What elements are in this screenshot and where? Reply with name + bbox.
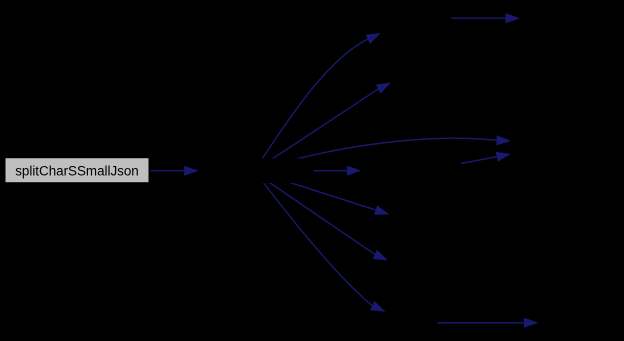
node splitCharSSmallJson (gray box) xyxy=(6,158,149,182)
edge from hub to second node xyxy=(254,83,391,172)
edge from hub to bottom node (curved) xyxy=(255,172,386,312)
edge from hub to top node (curved) xyxy=(254,33,381,171)
edge from top node to its callee (horizontal, top right) xyxy=(451,13,520,23)
hub node (black, invisible, clips fan edge origins) xyxy=(200,159,314,184)
edge from hub to middle node (short horizontal) xyxy=(300,166,361,176)
edge from splitCharSSmallJson to hub xyxy=(151,166,199,176)
edge from bottom node to its callee (horizontal, bottom right) xyxy=(437,318,539,328)
edge from hub to lower node 1 xyxy=(254,171,389,215)
svg-text:splitCharSSmallJson: splitCharSSmallJson xyxy=(15,164,139,179)
edge from middle node to far right node xyxy=(461,152,511,164)
edge from hub to far right node (long curve) xyxy=(256,135,511,170)
edge from hub to lower node 2 (curved) xyxy=(254,172,388,261)
